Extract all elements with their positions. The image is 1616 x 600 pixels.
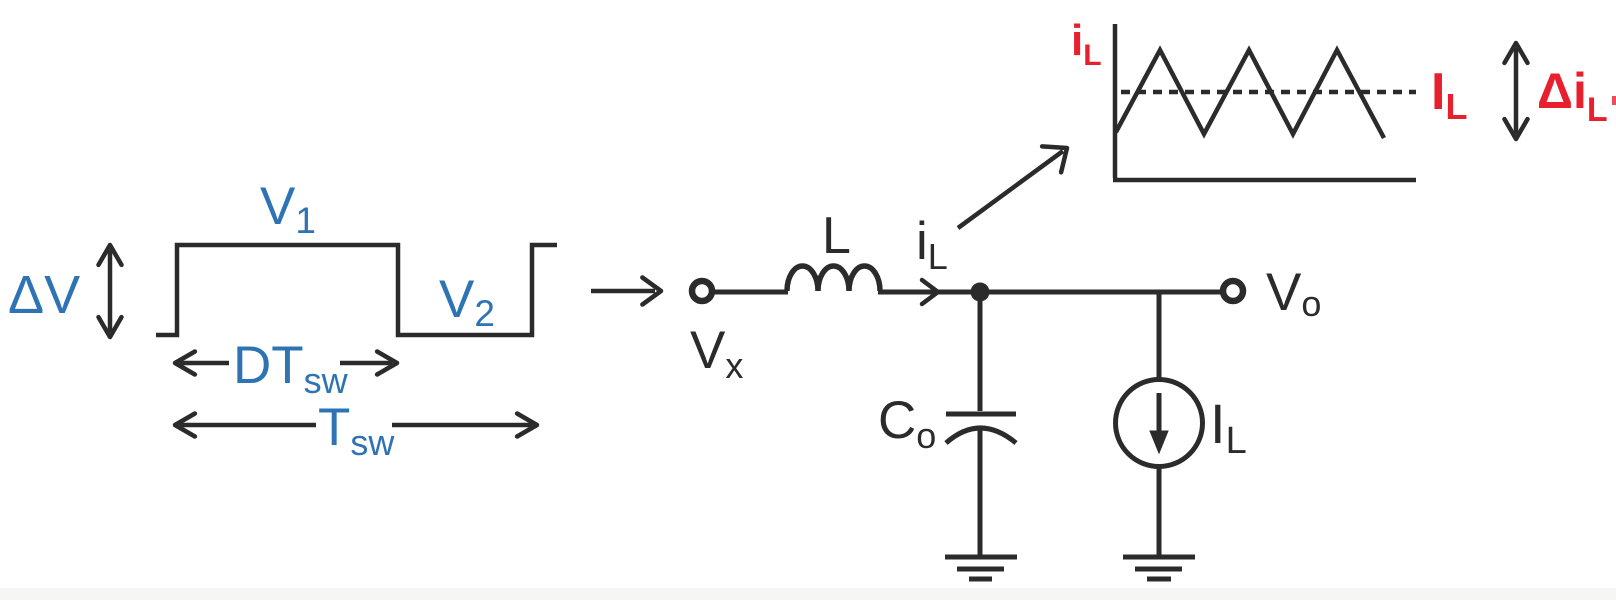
terminal Vx bbox=[692, 281, 712, 301]
wire capacitor to ground bbox=[978, 430, 983, 557]
cut-off glyph at right edge bbox=[1612, 96, 1616, 105]
ΔV dimension arrow bbox=[99, 245, 122, 337]
ground (current source) bbox=[1123, 557, 1195, 579]
iL triangle waveform bbox=[1116, 50, 1384, 138]
wire node to current source bbox=[1157, 292, 1162, 378]
inductor L bbox=[787, 266, 880, 291]
wire current source to ground bbox=[1157, 468, 1162, 557]
wire node to Vo bbox=[1159, 290, 1222, 295]
terminal Vo bbox=[1223, 281, 1243, 301]
current source IL bbox=[1116, 380, 1203, 467]
ground (capacitor) bbox=[945, 557, 1017, 579]
wire node to capacitor bbox=[978, 292, 983, 411]
ΔiL dimension arrow bbox=[1505, 43, 1528, 139]
IL average dashed line bbox=[1121, 90, 1416, 95]
Vx square-wave waveform bbox=[156, 245, 557, 335]
callout arrow to iL plot bbox=[958, 146, 1067, 228]
node junction dot bbox=[971, 283, 990, 302]
svg-text:L: L bbox=[822, 207, 851, 265]
wire L to node bbox=[878, 290, 1159, 295]
arrow to circuit bbox=[591, 278, 661, 305]
iL plot axes bbox=[1113, 24, 1416, 180]
svg-text:ΔV: ΔV bbox=[8, 265, 80, 325]
wire Vx to L bbox=[713, 290, 788, 295]
DTsw dimension arrow bbox=[175, 352, 397, 375]
Tsw dimension arrow bbox=[175, 414, 537, 437]
current arrow iL bbox=[922, 280, 938, 304]
capacitor Co bbox=[946, 414, 1016, 443]
